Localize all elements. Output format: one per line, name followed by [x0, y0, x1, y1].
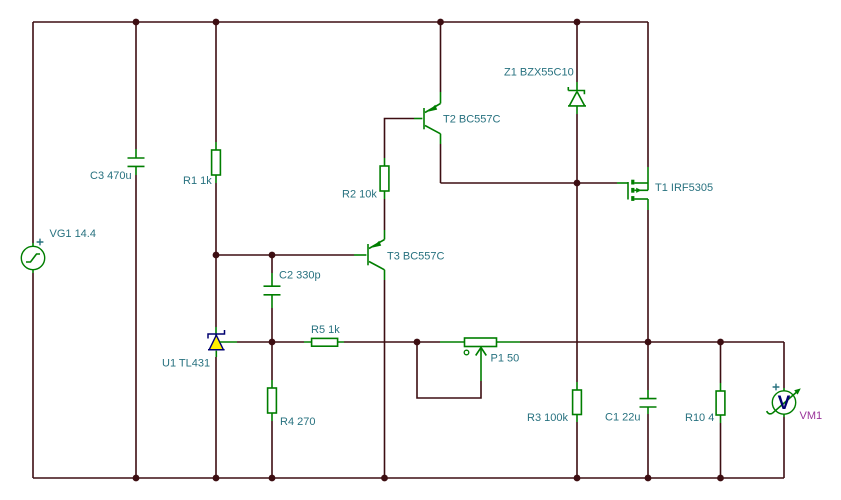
wire R1 top — [215, 22, 217, 142]
wire T3 collector down — [384, 280, 386, 478]
wire R4 bottom — [271, 421, 273, 478]
wire Z1 top — [576, 22, 578, 82]
wire node y255 horizontal — [216, 254, 354, 256]
svg-text:T1 IRF5305: T1 IRF5305 — [655, 182, 713, 194]
wire VM1 to ground rail — [783, 417, 785, 478]
wire C3 bottom — [135, 175, 137, 478]
wire C2 bottom — [271, 308, 273, 342]
junction top rail at T2 emitter — [437, 19, 444, 26]
junction bottom rail at C3 — [133, 475, 140, 482]
junction y342 at R10 — [717, 339, 724, 346]
svg-text:C1 22u: C1 22u — [605, 412, 640, 424]
svg-text:R2 10k: R2 10k — [342, 189, 377, 201]
capacitor C3 — [128, 149, 145, 175]
capacitor C2 — [264, 273, 281, 308]
wire right edge to VM1 — [783, 342, 785, 388]
wire C1 top — [647, 342, 649, 390]
junction top rail at Z1 — [574, 19, 581, 26]
svg-text:R10 4: R10 4 — [685, 412, 714, 424]
wire C2 top — [271, 255, 273, 273]
junction node y255 at R1 — [213, 252, 220, 259]
junction y342 at wiper return — [414, 339, 421, 346]
svg-text:U1 TL431: U1 TL431 — [162, 358, 210, 370]
wire R1 bottom to node — [215, 183, 217, 255]
svg-text:C2 330p: C2 330p — [279, 270, 321, 282]
svg-text:C3 470u: C3 470u — [90, 170, 132, 182]
resistor R4 — [268, 380, 277, 421]
MOSFET T1 IRF5305 — [617, 167, 648, 210]
wire U1 anode to ground rail — [215, 357, 217, 478]
voltage source VG1 — [21, 239, 44, 273]
capacitor C1 — [640, 390, 657, 414]
svg-text:R4 270: R4 270 — [280, 416, 315, 428]
junction node y255 at C2 — [269, 252, 276, 259]
transistor T2 BC557C — [414, 92, 441, 144]
resistor R10 — [716, 383, 725, 423]
wire top rail — [33, 21, 648, 23]
svg-text:R5 1k: R5 1k — [311, 324, 340, 336]
resistor R3 — [573, 382, 582, 422]
wire ref line y342 mid — [344, 341, 440, 343]
junction y342 at C1 — [645, 339, 652, 346]
svg-text:V: V — [778, 393, 791, 414]
junction bottom rail at U1 — [213, 475, 220, 482]
svg-text:R3 100k: R3 100k — [527, 412, 568, 424]
wire C3 top — [135, 22, 137, 149]
svg-text:T2 BC557C: T2 BC557C — [443, 114, 501, 126]
svg-text:Z1 BZX55C10: Z1 BZX55C10 — [504, 67, 574, 79]
junction bottom rail at T3 collector — [381, 475, 388, 482]
junction bottom rail at R3 — [574, 475, 581, 482]
junction y342 at C2/R4 — [269, 339, 276, 346]
wire ref line y342 left — [237, 341, 304, 343]
junction bottom rail at R10 — [717, 475, 724, 482]
svg-text:T3 BC557C: T3 BC557C — [387, 251, 445, 263]
wire U1 cathode — [215, 255, 217, 327]
potentiometer P1 — [440, 338, 520, 381]
wire ref line y342 right — [520, 341, 784, 343]
resistor R2 — [380, 158, 389, 199]
junction gate line at Z1/R3 — [574, 180, 581, 187]
wire T2 emitter up — [440, 22, 442, 92]
wire gate line y183 — [441, 182, 618, 184]
svg-text:VG1 14.4: VG1 14.4 — [50, 228, 96, 240]
voltmeter VM1 — [767, 384, 801, 417]
junction bottom rail at C1 — [645, 475, 652, 482]
transistor T3 BC557C — [354, 230, 385, 280]
svg-text:VM1: VM1 — [800, 410, 823, 422]
wire R2 bottom to T3 emitter — [384, 199, 386, 230]
wire R10 bottom — [720, 423, 722, 478]
resistor R1 — [212, 142, 221, 183]
wire T1 drain from top rail — [647, 22, 649, 167]
wire R3 column — [576, 183, 578, 478]
wire R10 top — [720, 342, 722, 383]
wire left vertical upper — [32, 22, 34, 243]
svg-text:P1 50: P1 50 — [491, 353, 520, 365]
resistor R5 — [304, 338, 344, 346]
wire bottom rail — [33, 477, 784, 479]
wire R4 top — [271, 342, 273, 380]
zener diode Z1 BZX55C10 — [568, 82, 586, 114]
wire T2 collector down — [440, 144, 442, 183]
shunt regulator U1 TL431 — [208, 327, 237, 357]
wire Z1 bottom to gate node — [576, 114, 578, 183]
wire T2 base to R2 corner — [385, 119, 415, 159]
wire left vertical lower — [32, 273, 34, 478]
svg-text:R1 1k: R1 1k — [183, 175, 212, 187]
wire C1 bottom — [647, 414, 649, 478]
junction bottom rail at R4 — [269, 475, 276, 482]
junction top rail at R1 — [213, 19, 220, 26]
wire P1 wiper return — [417, 342, 481, 398]
wire T1 source down — [647, 210, 649, 342]
junction top rail at C3 — [133, 19, 140, 26]
